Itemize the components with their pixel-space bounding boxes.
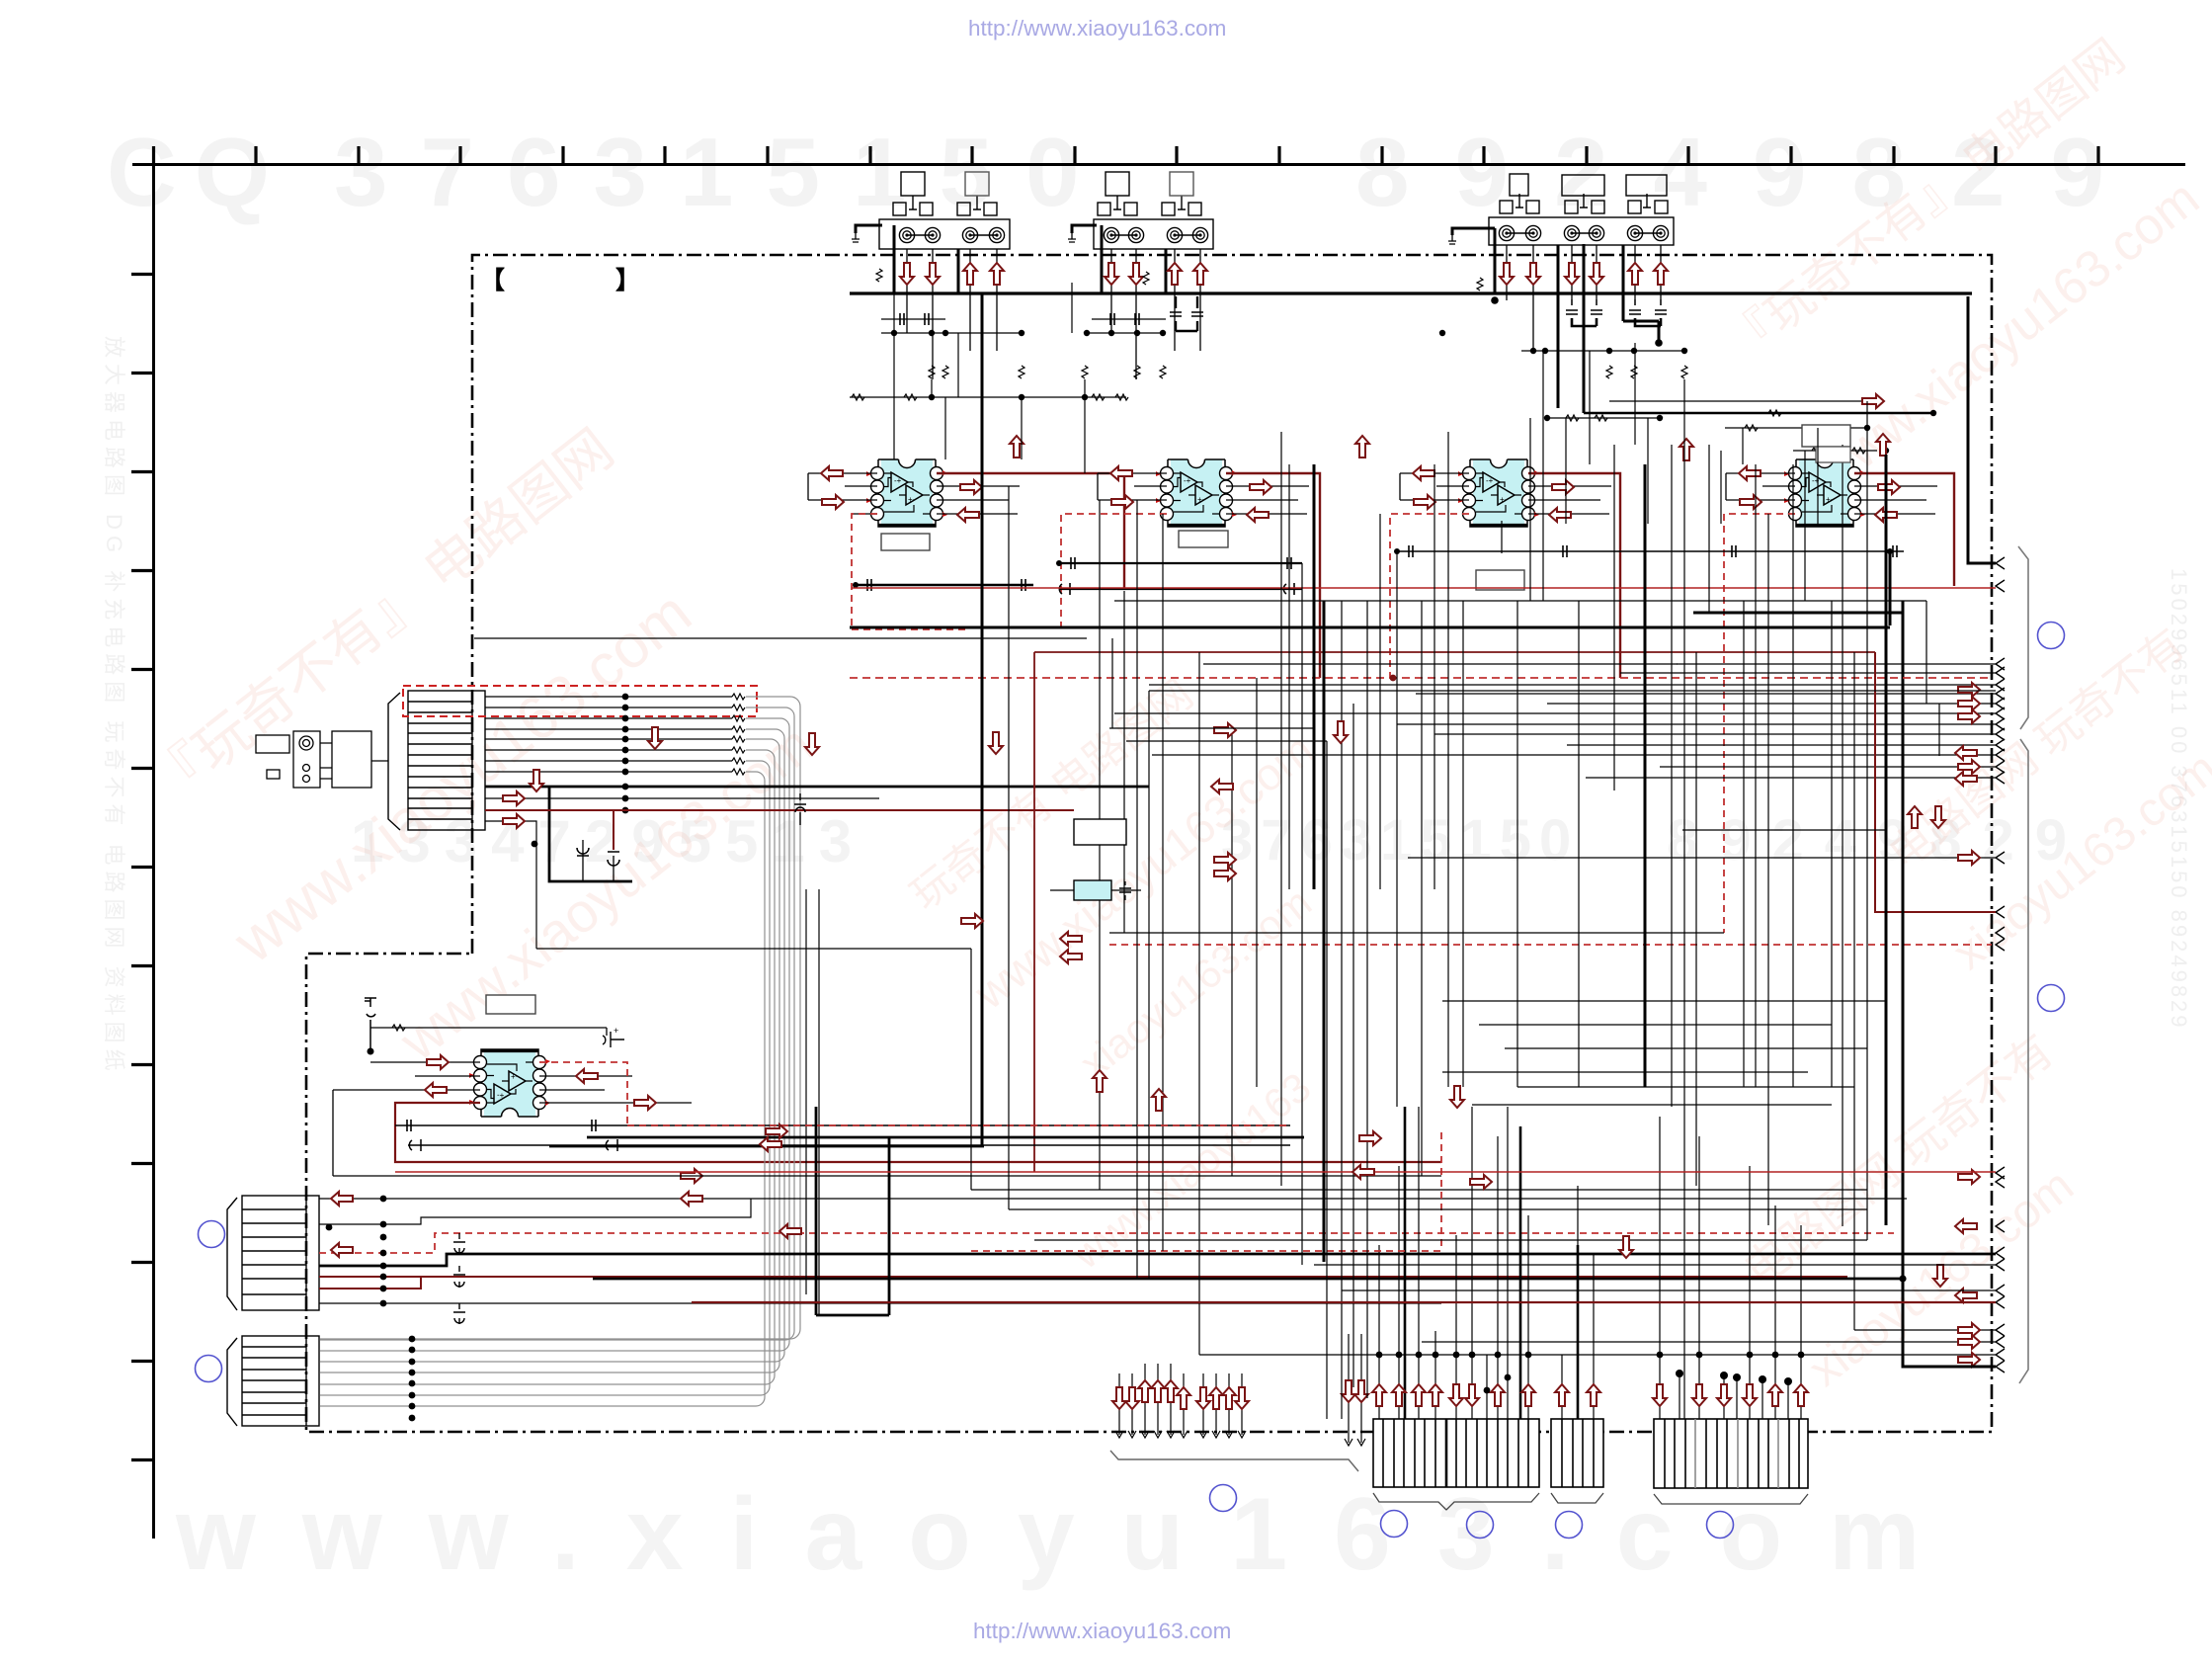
caps row group2	[1092, 313, 1166, 325]
rca group3 thick drops	[1558, 245, 1659, 408]
thin horizontal y646	[474, 637, 1087, 639]
thick verticals center	[982, 293, 1890, 1262]
IC4 label rect	[1802, 425, 1850, 447]
center label rect 1	[1074, 819, 1126, 845]
IC4 output dark red wire	[1854, 473, 1954, 586]
jack block left of CN	[256, 731, 388, 788]
op-amp IC3	[1458, 459, 1539, 527]
svg-text:376315150: 376315150	[1221, 808, 1579, 873]
rca group3 jacks	[1499, 225, 1668, 240]
IC5 top cap and wires	[365, 998, 376, 1055]
blue circle bottom brace	[1210, 1485, 1237, 1512]
IC1 output dark red wire	[937, 473, 1124, 588]
pink diagonal watermark center	[893, 632, 1395, 1112]
arrows rca group1	[900, 263, 914, 285]
wire y355 group3	[1521, 350, 1684, 352]
connector A rising wires	[1379, 1107, 1528, 1419]
blue circle conn B	[1556, 1512, 1583, 1539]
CN gray bundle curves down	[320, 697, 800, 1406]
extra mesh verticals under group3	[1530, 351, 1818, 601]
rca group3 top squares	[1510, 174, 1667, 196]
CN1 junction dots	[326, 1196, 387, 1307]
blue circle conn A right	[1467, 1512, 1494, 1539]
connector C wire dots	[1657, 1352, 1805, 1385]
CN thick row wire	[485, 786, 1149, 789]
rca group3 small squares	[1500, 194, 1668, 213]
right side gray bracket upper	[2018, 546, 2028, 729]
connector B rising wires	[1562, 1186, 1594, 1419]
red dashed IC2	[1061, 514, 1167, 632]
CN wire resistors	[732, 694, 745, 775]
rca group2 signal drops	[1111, 249, 1200, 379]
dark red bottom thick y1318	[692, 1301, 1996, 1303]
junction dot thick cross bottom right	[1899, 1275, 1906, 1282]
right bus horizontal wires group	[1109, 664, 1996, 1355]
red dashed IC1	[852, 514, 968, 629]
IC2 label rect	[1179, 531, 1228, 547]
CN1 caps column	[453, 1233, 465, 1324]
CN1 arrows	[331, 1192, 353, 1206]
IC1 pin wires left	[808, 473, 877, 514]
caps wire row between IC1-IC2 upper	[1056, 557, 1302, 569]
up arrows above ICs	[1010, 436, 1024, 458]
CN wire junction dots	[622, 694, 629, 814]
IC3 pin wires left	[1400, 473, 1469, 500]
arrows rca group2	[1105, 263, 1118, 285]
CN1 thick row	[319, 1254, 1996, 1266]
IC4 pin wires right	[1854, 486, 1937, 514]
CN thick branch down with caps	[532, 787, 632, 881]
ruler top line	[132, 163, 2185, 166]
IC1 label rect	[881, 534, 930, 550]
caps row group1	[881, 313, 945, 325]
svg-text:【: 【	[480, 267, 505, 294]
bottom long thin bracket	[1110, 1451, 1358, 1471]
arrows IC3	[1413, 466, 1434, 480]
resistor pair wire above IC4	[1544, 415, 1663, 421]
connector B arrows	[1555, 1384, 1569, 1406]
ground rca group2	[1068, 225, 1102, 293]
center arrows	[989, 732, 1003, 754]
IC4 pin wires left	[1726, 473, 1795, 500]
connector A hatched	[1373, 1419, 1539, 1487]
wire y406 group3 right	[1609, 394, 1936, 416]
blue circle left conn2	[196, 1356, 222, 1382]
dark red thick terminal wire y923	[1875, 652, 1996, 912]
svg-text:CQ: CQ	[107, 118, 287, 226]
caps group3 hanging	[1566, 299, 1667, 326]
CN wires 8 rows with resistors	[485, 697, 732, 772]
IC5 pin wires left	[333, 1062, 480, 1176]
pink diagonal watermark bottom center	[1063, 1063, 1320, 1278]
svg-text:http://www.xiaoyu163.com: http://www.xiaoyu163.com	[973, 1619, 1231, 1643]
resistor below group3 ground	[1477, 278, 1483, 291]
rca group1 small squares	[893, 196, 997, 215]
cap right of CN rows	[794, 793, 806, 825]
right bus red dashed wires	[971, 945, 1992, 1251]
blue circle conn C	[1707, 1512, 1734, 1539]
connector C brace	[1654, 1494, 1808, 1504]
red dashed IC4	[1724, 514, 1795, 933]
CN2 brace	[227, 1338, 237, 1426]
IC5 top resistor wire	[370, 1025, 607, 1036]
IC3 pin wires right	[1528, 486, 1611, 514]
ground rca group3	[1448, 228, 1495, 293]
pink diagonal watermark bottom right	[1727, 1025, 2136, 1397]
svg-text:http://www.xiaoyu163.com: http://www.xiaoyu163.com	[968, 16, 1226, 41]
junction dots under groups	[891, 296, 1687, 354]
CN2 junction dots	[409, 1336, 416, 1422]
thick corner to terminal y1383	[1903, 601, 1996, 1367]
pink diagonal watermark left	[114, 417, 843, 1116]
caps group2 right polarized	[1170, 296, 1203, 331]
wire y337 group1	[881, 332, 1022, 334]
pink diagonal watermark right middle	[1872, 620, 2212, 979]
connector A wire dots	[1376, 1352, 1532, 1394]
dash-dot board border	[306, 255, 1992, 1432]
IC5 small cap right	[603, 1026, 624, 1047]
rca group3 signal drops	[1507, 245, 1661, 351]
dot on red dashed	[1390, 675, 1397, 682]
op-amp IC5 (flipped)	[469, 1049, 550, 1117]
arrows rca group3	[1500, 263, 1514, 285]
op-amp IC2	[1156, 459, 1237, 527]
IC2 pin wires right	[1226, 486, 1309, 514]
arrows IC1	[821, 466, 843, 480]
connector CN1 lower-left ladder	[242, 1196, 319, 1310]
arrows IC5	[427, 1055, 449, 1069]
thin horizontal y699	[1149, 690, 1996, 692]
caps wire row IC1 below	[853, 579, 1033, 591]
CN1 brace	[227, 1198, 237, 1310]
right bus arrows cluster	[1958, 683, 1980, 697]
svg-text:放大器电路图 DG 补充电路图 玩奇不有 电路图网 资料图纸: 放大器电路图 DG 补充电路图 玩奇不有 电路图网 资料图纸	[102, 336, 126, 1077]
CN row 12 wire and arrow	[485, 814, 536, 949]
wire y402 with resistors group1	[850, 394, 1128, 400]
svg-text:www.xiaoyu163.com: www.xiaoyu163.com	[175, 1477, 1966, 1592]
rca group 3 box	[1489, 217, 1674, 245]
rca group1 jacks	[899, 227, 1004, 242]
long red dashed horizontal y686	[850, 677, 1992, 679]
down arrow right of CN	[805, 733, 819, 755]
thick black to terminal y570	[1968, 296, 1996, 563]
CN row 10 wire and arrow	[485, 791, 879, 805]
connector C hatched	[1654, 1419, 1808, 1488]
IC3 output dark red wire	[1528, 473, 1620, 678]
ruler top ticks	[154, 146, 2099, 164]
IC1 pin wires right	[937, 486, 1020, 514]
IC2 output dark red wire	[1226, 473, 1320, 678]
op-amp IC4	[1784, 459, 1865, 527]
svg-text:89249829: 89249829	[1667, 808, 2088, 873]
svg-text:】: 】	[615, 267, 640, 294]
resistor pair wire top right	[1793, 448, 1889, 454]
CN1 red dashed row	[319, 1233, 1894, 1253]
connector A arrows	[1372, 1384, 1386, 1406]
connector A braces	[1373, 1493, 1539, 1510]
connector CN mid-left ladder	[408, 691, 485, 830]
blue circle conn A left	[1381, 1511, 1408, 1538]
red dashed IC5	[539, 1062, 627, 1125]
extra mesh horizontals right-center	[1109, 601, 1926, 1105]
thick horizontal y635	[850, 626, 1890, 629]
thick horizontals center lower	[549, 1107, 1903, 1315]
bottom left cluster down arrowheads	[1115, 1431, 1365, 1446]
svg-text:+: +	[614, 1026, 618, 1036]
rca group2 small squares	[1098, 196, 1201, 215]
connector C rising wires	[1660, 1117, 1801, 1419]
bottom left cluster arrows	[1112, 1387, 1126, 1409]
down arrows below CN	[530, 770, 543, 791]
ruler left line	[152, 164, 155, 1539]
rca group 2 box	[1094, 219, 1213, 249]
ruler left ticks	[131, 275, 153, 1460]
thick wire y418 group3	[1584, 244, 1933, 416]
connector CN brace	[388, 693, 400, 830]
thick horizontal y620 right	[1693, 612, 1904, 615]
IC5 label rect	[486, 995, 535, 1014]
dark red vertical drop from CN1 rows	[1008, 486, 1010, 1209]
caps wire row IC3-IC4	[1394, 545, 1904, 557]
caps rows above IC5 area	[395, 1120, 1290, 1131]
rca group1 big squares	[901, 172, 989, 196]
long verticals center mesh	[806, 283, 1939, 1419]
wire y433 group3	[1725, 425, 1870, 431]
IC5 dark red wire	[395, 1103, 1441, 1162]
connector B hatched	[1551, 1419, 1603, 1487]
long red wire y595	[852, 587, 1996, 589]
small cyan block center	[1050, 880, 1141, 900]
connector C arrows	[1653, 1384, 1667, 1406]
center thin horizontals lower	[333, 1176, 1996, 1290]
right terminal arrowheads	[1996, 557, 2005, 1373]
CN row 11 dark red wire	[485, 810, 1074, 850]
bottom left arrow cluster wires	[1119, 1334, 1361, 1443]
dark red vertical x1047	[1033, 652, 1035, 1172]
long red horizontal y1186	[395, 1171, 1996, 1173]
ground rca group1	[852, 225, 894, 293]
op-amp IC1	[866, 459, 947, 527]
blue circle right upper	[2038, 623, 2065, 649]
caps wire row between IC1-IC2 lower polarized	[1059, 583, 1302, 595]
blue circle right lower	[2038, 985, 2065, 1012]
pink diagonal watermark top right	[1710, 30, 2212, 503]
rca group2 thick drop	[1165, 249, 1168, 293]
center label rect 2	[1816, 447, 1850, 462]
resistor left of group2	[1143, 272, 1149, 285]
resistor left of group1	[876, 269, 882, 282]
vertical resistors under groups	[929, 366, 1687, 378]
connector B brace	[1551, 1493, 1603, 1503]
CN1 wires	[319, 1199, 1907, 1303]
arrows IC2	[1110, 466, 1132, 480]
arrows IC4	[1739, 466, 1761, 480]
wire y337 group2	[1087, 332, 1163, 334]
IC2 pin wires left	[1098, 473, 1167, 500]
rca group2 jacks	[1104, 227, 1207, 242]
center wires left of mesh	[536, 949, 971, 1190]
rca group1 thick drop	[957, 249, 960, 293]
IC5 pin wires right	[539, 1076, 692, 1103]
IC3 label rect	[1476, 570, 1524, 590]
connector CN2 lowest ladder	[242, 1336, 319, 1426]
svg-text:376315150: 376315150	[334, 118, 1112, 226]
rca group2 big squares	[1106, 172, 1193, 196]
red dashed IC5 row	[627, 1124, 1290, 1126]
main thick bus under rca groups	[850, 291, 1972, 294]
right side gray bracket lower	[2019, 739, 2028, 1383]
red dashed box around top rows	[403, 686, 757, 716]
dark red horizontal y660	[1034, 651, 1875, 653]
rca group 1 box	[879, 219, 1010, 249]
CN1 dark red rows	[319, 1277, 1847, 1289]
blue circle left conn1	[199, 1221, 225, 1248]
rca group1 signal drops	[907, 249, 997, 379]
red dashed IC3	[1390, 514, 1469, 678]
svg-text:电路图网 玩奇不有: 电路图网 玩奇不有	[1735, 1025, 2063, 1296]
svg-text:『玩奇不有』 电路图网: 『玩奇不有』 电路图网	[138, 417, 624, 816]
